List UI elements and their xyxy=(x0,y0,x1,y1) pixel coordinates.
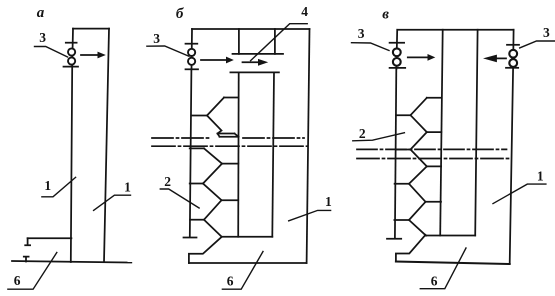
inner pipe right xyxy=(475,30,477,236)
concrete level dash-dot lower xyxy=(357,158,512,160)
svg-text:4: 4 xyxy=(301,4,308,19)
leader of right 1 xyxy=(94,195,131,210)
chute link cone 4 xyxy=(411,150,427,167)
chute landing 4 xyxy=(190,219,204,221)
concrete level dash-dot lower xyxy=(152,145,307,147)
left wall 1 xyxy=(71,67,72,262)
bottom line 6 xyxy=(396,262,510,265)
inner pipe lower right xyxy=(272,72,274,236)
chute link cone 5 xyxy=(203,184,222,201)
chute link cone 5 xyxy=(409,166,427,183)
inner pipe upper left xyxy=(238,29,240,54)
leader of 3 xyxy=(35,47,68,58)
svg-text:3: 3 xyxy=(543,25,550,40)
svg-text:1: 1 xyxy=(325,194,332,209)
right sheave circle upper xyxy=(509,50,517,58)
sheave circle lower xyxy=(68,57,75,64)
chute link cone 2 xyxy=(411,115,427,132)
ground line 6 xyxy=(12,261,131,263)
svg-text:6: 6 xyxy=(227,274,234,289)
chute link rim 4 xyxy=(426,201,442,203)
leader of 6 xyxy=(222,252,263,290)
chute link cone 8 (neck to floor) xyxy=(409,220,426,236)
chute link rim 1 xyxy=(427,97,442,99)
leader of left 1 xyxy=(42,177,76,197)
svg-text:б: б xyxy=(176,6,184,22)
wall foot T-bar xyxy=(184,237,197,239)
inner pipe upper right xyxy=(274,29,276,54)
bottom hopper step xyxy=(396,235,426,262)
svg-text:3: 3 xyxy=(358,26,365,41)
inner pipe lower left xyxy=(237,72,240,236)
left wall 1 xyxy=(190,69,192,236)
pipe floor xyxy=(426,235,476,237)
chute link cone 2 xyxy=(207,116,222,134)
chute link rim 1 xyxy=(224,97,239,99)
chute link cone 3 xyxy=(204,148,222,163)
gate plate lower 4 xyxy=(230,71,279,73)
right wall 1 xyxy=(510,68,513,263)
left sheave tick bottom xyxy=(390,67,406,69)
chute link rim 3 xyxy=(427,165,441,167)
top line xyxy=(192,28,310,30)
chute landing 2 xyxy=(190,147,204,149)
svg-text:3: 3 xyxy=(153,31,160,46)
right wall 1 xyxy=(307,29,310,263)
leader of 6 xyxy=(420,248,466,289)
hanger tick under step xyxy=(25,238,30,245)
left wall foot T-bar xyxy=(387,238,401,240)
sheave circle lower xyxy=(188,58,195,65)
chute landing 1 xyxy=(396,114,410,116)
concrete level dash-dot upper xyxy=(152,137,304,139)
leader of 1 xyxy=(289,210,331,220)
sheave mount tick bottom xyxy=(186,68,199,70)
chute link rim 2 xyxy=(427,131,442,133)
sheave circle upper xyxy=(188,49,195,56)
svg-text:2: 2 xyxy=(359,126,366,141)
right sheave tick bottom xyxy=(506,67,518,69)
chute landing 2 xyxy=(396,149,411,151)
right sheave tick top xyxy=(507,44,519,46)
sheave mount tick top xyxy=(66,42,77,44)
right sheave circle lower xyxy=(509,59,517,67)
sheave mount tick bottom xyxy=(64,66,79,68)
chute link cone 4 xyxy=(203,164,222,184)
leader of 4 xyxy=(251,24,308,61)
left wall upper stub xyxy=(395,30,398,69)
flow arrow right xyxy=(81,54,98,56)
svg-text:6: 6 xyxy=(431,273,438,288)
flow arrow right side (points left) xyxy=(497,57,506,59)
sheave circle upper xyxy=(68,48,75,55)
anchor tick on ground xyxy=(24,257,29,262)
chute link cone 1 xyxy=(411,98,427,115)
inner pipe left xyxy=(440,30,443,236)
left wall 1 xyxy=(395,69,396,237)
leader of right 3 xyxy=(520,41,555,48)
bottom line 6 xyxy=(189,262,307,264)
top line xyxy=(397,29,513,31)
flow arrow through gate xyxy=(243,61,259,63)
flow arrow left side xyxy=(408,56,428,58)
svg-text:1: 1 xyxy=(124,180,131,195)
concrete level dash-dot upper xyxy=(357,148,507,150)
top crossbeam xyxy=(73,28,109,30)
chute landing 3 xyxy=(395,183,409,185)
leader of 2 xyxy=(353,133,405,141)
sheave mount tick top xyxy=(186,43,198,45)
left sheave circle upper xyxy=(393,48,401,56)
bottom hopper step xyxy=(189,237,222,263)
flow arrow at sheave xyxy=(201,59,227,61)
svg-text:6: 6 xyxy=(14,273,21,288)
svg-text:1: 1 xyxy=(537,169,544,184)
svg-text:1: 1 xyxy=(44,178,51,193)
left wall upper stub xyxy=(71,29,74,67)
chute link cone 6 xyxy=(204,200,222,220)
step bracket xyxy=(28,237,72,239)
gate plate upper 4 xyxy=(233,53,284,55)
left wall upper stub xyxy=(191,29,194,69)
pipe floor xyxy=(222,236,273,238)
chute link cone 3 xyxy=(411,132,427,149)
leader of left 3 xyxy=(352,43,390,51)
left sheave circle lower xyxy=(393,58,401,66)
chute landing 1 xyxy=(191,115,207,117)
right wall upper stub xyxy=(512,30,515,68)
svg-text:2: 2 xyxy=(164,174,171,189)
svg-text:в: в xyxy=(382,7,389,23)
chute landing 4 xyxy=(394,219,409,221)
chute link rim 5 xyxy=(222,199,239,201)
svg-text:3: 3 xyxy=(39,30,46,45)
leader of 2 xyxy=(160,189,199,208)
chute link cone 7 (neck to floor) xyxy=(204,220,222,237)
left sheave tick top xyxy=(390,42,405,44)
chute link cone 7 xyxy=(409,202,426,220)
right wall 1 xyxy=(104,29,109,262)
leader of 1 xyxy=(493,184,546,204)
chute link rim 3 xyxy=(222,163,238,165)
chute landing 3 xyxy=(190,183,203,185)
leader of 3 xyxy=(147,46,189,56)
leader of 6 xyxy=(8,253,57,290)
chute outlet trapezoid xyxy=(218,134,239,137)
chute link cone 6 xyxy=(409,184,426,202)
svg-text:а: а xyxy=(37,5,45,21)
chute link cone 1 xyxy=(207,98,224,116)
